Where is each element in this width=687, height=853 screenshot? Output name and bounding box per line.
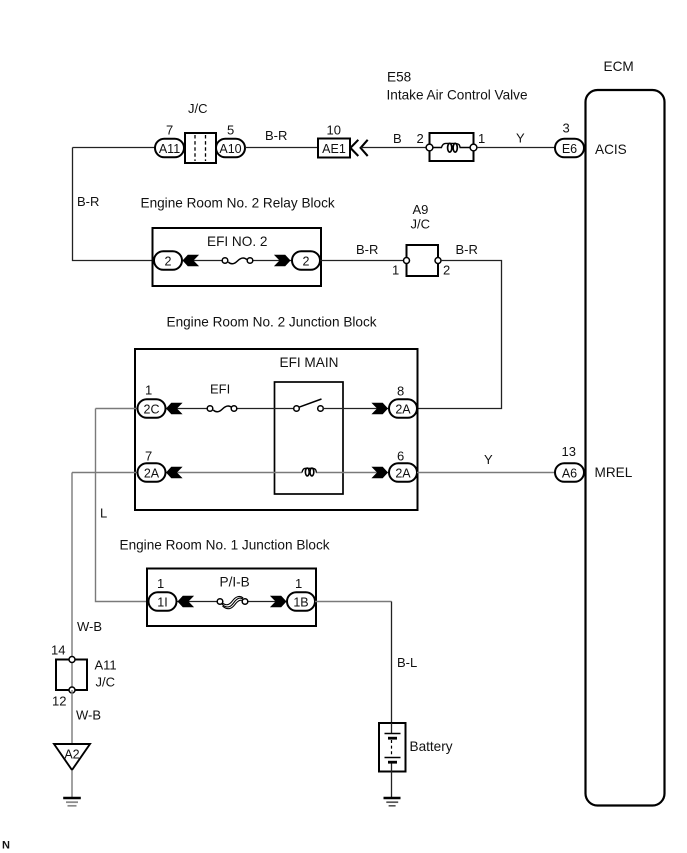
ground (A2) xyxy=(63,798,81,806)
footer letter N xyxy=(2,840,10,852)
wire B-R from relay block to A9 xyxy=(320,260,407,262)
label W-B (lower) xyxy=(76,708,101,723)
label J/C (lower) xyxy=(96,675,116,690)
wire B-R from node at x72 to connector A11, top row xyxy=(73,147,157,149)
svg-text:AE1: AE1 xyxy=(322,142,346,156)
wire row1 black from switch to 2A pin8 xyxy=(323,408,389,410)
connector E6 oval xyxy=(555,139,584,158)
svg-text:1: 1 xyxy=(295,576,302,591)
svg-text:2A: 2A xyxy=(395,402,411,416)
label EFI NO. 2 xyxy=(207,234,267,249)
svg-text:14: 14 xyxy=(51,643,65,658)
label Engine Room No. 2 Relay Block xyxy=(141,196,335,211)
label Intake Air Control Valve xyxy=(387,88,528,103)
wire row1 gray from junction block to left drop xyxy=(96,408,139,410)
pin 12 label of A11 J/C xyxy=(52,694,66,709)
wire B-R from A9 down to junction block xyxy=(417,261,502,409)
connector 2A oval (pin 8) xyxy=(389,399,417,418)
svg-text:N: N xyxy=(2,840,10,852)
label B-R (to A9) xyxy=(356,242,378,257)
pin 2 label of A9 xyxy=(443,263,450,278)
connector 2 oval (left, EFI NO.2) xyxy=(154,251,182,270)
connector 2A oval (pin 6) xyxy=(389,463,417,482)
pin 10 label of connector AE1 xyxy=(327,123,341,138)
battery xyxy=(379,723,406,772)
label B-R (right of A9) xyxy=(456,242,478,257)
pin 13 label of connector A6 xyxy=(562,444,576,459)
svg-text:ACIS: ACIS xyxy=(595,142,627,157)
svg-text:2: 2 xyxy=(417,131,424,146)
connector 1B oval xyxy=(287,592,315,611)
svg-text:B-R: B-R xyxy=(265,128,287,143)
svg-text:13: 13 xyxy=(562,444,576,459)
wire gray vertical from 2C down to 1I xyxy=(96,409,150,602)
svg-text:2A: 2A xyxy=(144,466,160,480)
svg-text:A10: A10 xyxy=(219,142,241,156)
svg-text:1: 1 xyxy=(145,383,152,398)
pin 1 label of A9 xyxy=(392,263,399,278)
svg-text:MREL: MREL xyxy=(595,465,633,480)
shielded-splice chevrons after AE1 xyxy=(350,140,367,156)
Engine Room No.2 junction block box xyxy=(135,349,418,510)
connector AE1 box xyxy=(318,139,350,158)
svg-text:J/C: J/C xyxy=(188,101,208,116)
wire Y from valve to E6 xyxy=(477,147,556,149)
Engine Room No.2 relay block box xyxy=(153,228,322,286)
label ECM xyxy=(604,59,634,74)
label Battery xyxy=(410,739,453,754)
svg-text:2A: 2A xyxy=(395,466,411,480)
label Y (to MREL) xyxy=(484,452,493,467)
svg-text:W-B: W-B xyxy=(77,619,102,634)
connector A10 oval xyxy=(216,139,245,158)
pin 1 label of 2C xyxy=(145,383,152,398)
svg-text:J/C: J/C xyxy=(96,675,116,690)
svg-text:1: 1 xyxy=(157,576,164,591)
connector 2C oval xyxy=(138,399,166,418)
relay switch contacts xyxy=(294,399,324,411)
svg-text:Y: Y xyxy=(484,452,493,467)
svg-text:W-B: W-B xyxy=(76,708,101,723)
label Engine Room No. 2 Junction Block xyxy=(167,315,377,330)
label P/I-B xyxy=(220,575,250,590)
junction connector A11 box (lower) xyxy=(56,657,87,694)
svg-text:2C: 2C xyxy=(144,402,160,416)
svg-text:J/C: J/C xyxy=(411,217,431,232)
fuse EFI NO.2 wire xyxy=(183,258,292,264)
connector 2A oval (pin 7) xyxy=(138,463,166,482)
pin 1 label of valve xyxy=(478,131,485,146)
label ACIS xyxy=(595,142,627,157)
pin 2 label of valve xyxy=(417,131,424,146)
svg-text:L: L xyxy=(100,506,107,521)
wire row2 gray from left drop through relay coil to 2A pin6 xyxy=(72,472,389,474)
wire Y from 2A pin6 to A6 xyxy=(417,472,556,474)
svg-text:Y: Y xyxy=(516,131,525,146)
fusible link P/I-B symbol xyxy=(217,596,248,608)
svg-text:B-R: B-R xyxy=(356,242,378,257)
arrow left (row1) xyxy=(166,403,183,415)
Engine Room No.1 junction block box xyxy=(147,569,316,627)
wire row P/I-B xyxy=(177,601,289,603)
pin 3 label of connector E6 xyxy=(563,121,570,136)
svg-text:Engine Room No. 2 Junction Blo: Engine Room No. 2 Junction Block xyxy=(167,315,377,330)
label B-R (A10 to AE1) xyxy=(265,128,287,143)
pin 7 label of 2A xyxy=(145,449,152,464)
wire W-B from A11 J/C to ground connector A2 xyxy=(71,690,73,744)
junction connector J/C box with dashed splice lines xyxy=(185,133,216,163)
svg-text:Engine Room No. 2 Relay Block: Engine Room No. 2 Relay Block xyxy=(141,196,335,211)
arrow left (EFI NO.2) xyxy=(183,255,200,267)
label J/C (A9) xyxy=(411,217,431,232)
svg-text:1I: 1I xyxy=(157,595,167,609)
svg-text:Intake Air Control Valve: Intake Air Control Valve xyxy=(387,88,528,103)
EFI MAIN relay box xyxy=(275,382,344,494)
svg-text:6: 6 xyxy=(397,449,404,464)
wire row1 black through EFI fuse xyxy=(164,408,297,410)
label A9 xyxy=(413,202,429,217)
label J/C (top junction connector) xyxy=(188,101,208,116)
svg-text:A2: A2 xyxy=(64,748,79,762)
label E58 xyxy=(387,70,411,85)
arrow left (P/I-B) xyxy=(178,596,195,608)
label Y (valve to ECM) xyxy=(516,131,525,146)
relay coil xyxy=(302,468,316,476)
label B-L xyxy=(397,655,417,670)
svg-text:2: 2 xyxy=(443,263,450,278)
svg-text:E6: E6 xyxy=(562,142,577,156)
svg-text:3: 3 xyxy=(563,121,570,136)
svg-text:7: 7 xyxy=(145,449,152,464)
svg-text:A11: A11 xyxy=(95,658,117,673)
intake air control valve E58 body with solenoid coil xyxy=(426,133,477,161)
label W-B (upper) xyxy=(77,619,102,634)
label L xyxy=(100,506,107,521)
arrow right (row2) xyxy=(371,467,388,479)
svg-text:10: 10 xyxy=(327,123,341,138)
svg-text:B: B xyxy=(393,131,402,146)
pin 7 label of connector A11 xyxy=(166,123,173,138)
wire B from chevrons to valve xyxy=(361,147,429,149)
svg-text:B-R: B-R xyxy=(77,194,99,209)
connector 1I oval xyxy=(149,592,177,611)
wire B-R vertical left drop to EFI NO.2 relay block xyxy=(73,148,156,261)
connector 2 oval (right, EFI NO.2) xyxy=(292,251,320,270)
label B xyxy=(393,131,402,146)
label Engine Room No. 1 Junction Block xyxy=(120,538,330,553)
arrow right (P/I-B) xyxy=(270,596,287,608)
svg-text:EFI NO. 2: EFI NO. 2 xyxy=(207,234,267,249)
ECM box xyxy=(586,90,665,806)
svg-text:8: 8 xyxy=(397,384,404,399)
svg-text:Engine Room No. 1 Junction Blo: Engine Room No. 1 Junction Block xyxy=(120,538,330,553)
svg-text:1B: 1B xyxy=(293,595,308,609)
svg-text:7: 7 xyxy=(166,123,173,138)
svg-text:B-L: B-L xyxy=(397,655,417,670)
wire gray vertical from 2A pin7 down to A11 J/C xyxy=(71,473,73,661)
connector A6 oval xyxy=(555,463,584,482)
svg-text:A9: A9 xyxy=(413,202,429,217)
arrow right (EFI NO.2) xyxy=(274,255,291,267)
svg-text:B-R: B-R xyxy=(456,242,478,257)
fuse EFI symbol xyxy=(207,406,237,412)
ground connector A2 triangle xyxy=(54,744,90,770)
svg-text:2: 2 xyxy=(303,254,310,268)
svg-text:EFI: EFI xyxy=(210,382,230,397)
pin 14 label of A11 J/C xyxy=(51,643,65,658)
svg-text:1: 1 xyxy=(478,131,485,146)
connector A11 oval xyxy=(155,139,184,158)
label EFI MAIN xyxy=(280,355,339,370)
pin 1 label of 1B xyxy=(295,576,302,591)
svg-text:A6: A6 xyxy=(562,466,577,480)
wire B-L from 1B to battery xyxy=(315,602,392,724)
pin 1 label of 1I xyxy=(157,576,164,591)
label B-R (left vertical wire) xyxy=(77,194,99,209)
svg-text:ECM: ECM xyxy=(604,59,634,74)
pin 6 label of 2A xyxy=(397,449,404,464)
svg-text:P/I-B: P/I-B xyxy=(220,575,250,590)
svg-text:2: 2 xyxy=(165,254,172,268)
label MREL xyxy=(595,465,633,480)
arrow left (row2) xyxy=(166,467,183,479)
ground (battery) xyxy=(384,798,401,806)
wire A2 to ground xyxy=(71,770,73,797)
pin 5 label of connector A10 xyxy=(227,123,234,138)
arrow right (row1) xyxy=(371,403,388,415)
svg-text:E58: E58 xyxy=(387,70,411,85)
svg-text:1: 1 xyxy=(392,263,399,278)
label A11 (lower J/C) xyxy=(95,658,117,673)
label EFI fuse xyxy=(210,382,230,397)
svg-text:Battery: Battery xyxy=(410,739,453,754)
pin 8 label of 2A xyxy=(397,384,404,399)
svg-text:12: 12 xyxy=(52,694,66,709)
wire battery to ground xyxy=(391,772,393,798)
wire B-R from A10 to AE1 xyxy=(245,147,318,149)
junction connector A9 box xyxy=(404,245,442,276)
svg-text:5: 5 xyxy=(227,123,234,138)
svg-text:EFI MAIN: EFI MAIN xyxy=(280,355,339,370)
svg-text:A11: A11 xyxy=(159,142,180,156)
